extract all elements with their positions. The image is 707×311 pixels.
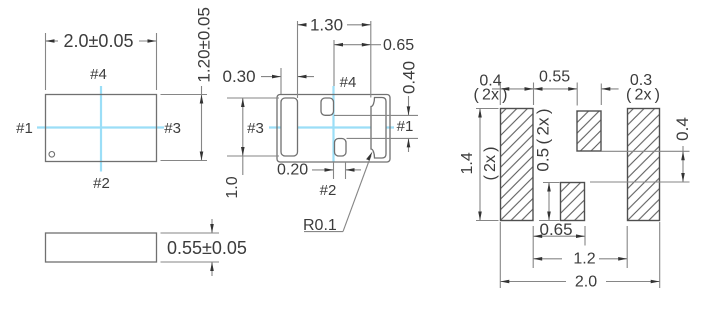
svg-text:0.65: 0.65 (540, 220, 573, 239)
land dim 0.4(2x) extension left (499, 83, 501, 106)
land dim 1.2 line + arrows (533, 258, 562, 260)
svg-text:1.0: 1.0 (224, 176, 241, 198)
land dim 0.3(2x) extension right (600, 84, 602, 106)
pin 1 index circle (49, 152, 55, 158)
dim 0.65 arrows (334, 43, 343, 47)
svg-text:0.55: 0.55 (539, 69, 570, 86)
pad #1 (bottom view right, castellated) (371, 98, 386, 159)
svg-text:0.30: 0.30 (223, 67, 256, 86)
dim 1.20±0.05 line (201, 86, 203, 161)
svg-text:2.0±0.05: 2.0±0.05 (64, 31, 134, 51)
dim 2.0±0.05 extension line right (156, 33, 158, 90)
dim 1.30 line segments (298, 24, 307, 26)
dim 1.30 extension left (297, 21, 299, 98)
svg-text:1.4: 1.4 (459, 152, 476, 174)
svg-text:0.40: 0.40 (400, 61, 419, 94)
top view centerline vertical (cyan) (100, 86, 102, 172)
dim 0.30 arrow left (outside) (261, 76, 281, 78)
svg-text:0.20: 0.20 (277, 162, 308, 179)
dim 2.0±0.05 arrow right (148, 39, 157, 43)
dim 0.55±0.05 arrow top (211, 219, 213, 233)
svg-text:1.2: 1.2 (573, 251, 595, 268)
dim 2.0±0.05 line left segment (46, 40, 59, 42)
land dim 0.4 right line + arrows (682, 146, 684, 182)
svg-text:( 2x ): ( 2x ) (626, 87, 660, 104)
svg-text:0.55±0.05: 0.55±0.05 (167, 238, 247, 258)
dim 2.0±0.05 line right segment (139, 40, 157, 42)
land dim 2.0 extension left (499, 222, 501, 288)
dim 1.20±0.05 arrow down (200, 152, 204, 161)
leader R0.1 (343, 156, 371, 232)
svg-text:#1: #1 (16, 120, 33, 137)
svg-text:R0.1: R0.1 (303, 217, 337, 234)
land dim 0.5(2x) line + arrows (548, 183, 550, 221)
svg-text:( 2x ): ( 2x ) (482, 147, 499, 181)
land dim 0.3(2x) arrow + tail (601, 88, 618, 90)
dim 0.20 extension left (333, 162, 335, 179)
svg-text:1.30: 1.30 (310, 16, 343, 35)
dim 0.20 arrow left (outside) (312, 169, 334, 171)
land dim 0.4(2x) line + arrows (492, 88, 534, 90)
dim 0.55±0.05 extension line top (161, 232, 220, 234)
dim 1.0 arrows (241, 98, 245, 107)
svg-text:#3: #3 (164, 120, 181, 137)
svg-text:#4: #4 (90, 66, 107, 83)
dim 1.20±0.05 extension line bottom (161, 160, 208, 162)
dim 0.55±0.05 arrow bottom (211, 262, 213, 276)
dim 2.0±0.05 extension line left (45, 33, 47, 90)
svg-text:2.0: 2.0 (575, 274, 597, 291)
land dim 1.4(2x) line + arrows (479, 109, 481, 221)
land pad top middle (hatched) (577, 111, 601, 151)
dim 1.20±0.05 arrow up (200, 95, 204, 104)
top view centerline horizontal (cyan) (37, 126, 164, 128)
land dim 0.4(2x)/0.55 extension shared (533, 83, 535, 106)
dim 0.40 extension top (pad4 bottom edge) (334, 114, 418, 116)
leader R0.1 underline (304, 231, 343, 233)
land pad right (hatched) (628, 109, 660, 221)
dim 0.20 extension right (345, 162, 347, 179)
dim 0.30 arrow right (outside) (298, 76, 315, 78)
dim 2.0±0.05 arrow left (46, 39, 55, 43)
land dim 0.55 line + arrows (534, 88, 578, 90)
dim 0.20 arrow right (outside) (346, 169, 362, 171)
dim 0.65 extension left (pad4 edge) (333, 40, 335, 86)
land dim 1.4(2x) extension ticks (476, 108, 499, 110)
svg-text:#3: #3 (247, 120, 264, 137)
land dim 0.65/1.2 extension shared left (532, 226, 534, 268)
svg-text:1.20±0.05: 1.20±0.05 (195, 7, 214, 83)
land dim 0.65 extension right (584, 226, 586, 246)
bottom view package outline (277, 95, 390, 163)
svg-text:0.4: 0.4 (673, 117, 692, 141)
bottom view centerline vertical (cyan) (332, 86, 334, 162)
dim 0.55±0.05 extension line bottom (161, 261, 220, 263)
svg-text:#2: #2 (93, 175, 110, 192)
dim 1.30 arrows (298, 23, 307, 27)
bottom view centerline horizontal (cyan) (269, 126, 394, 128)
pad #2 (bottom view bottom middle) (335, 139, 347, 157)
dim 1.20±0.05 extension line top (161, 94, 208, 96)
dim 1.0 extension bottom (227, 155, 279, 157)
land dim 0.5(2x) extension ticks (543, 182, 560, 184)
svg-text:#2: #2 (320, 182, 337, 199)
dim 0.40 arrow top (408, 96, 410, 115)
dim 1.0 extension top (227, 97, 279, 99)
pad #4 (bottom view top middle) (321, 98, 334, 115)
land dim 2.0 extension right (659, 222, 661, 288)
land dim 1.2 extension right (626, 226, 628, 268)
side view outline (46, 233, 157, 262)
svg-text:( 2x ): ( 2x ) (474, 87, 508, 104)
land dim 0.4 right extension bottom (590, 181, 690, 183)
svg-text:#1: #1 (397, 118, 414, 135)
dim 1.30 / 0.65 extension right (370, 21, 372, 98)
top view package outline (46, 95, 157, 162)
land pad bottom middle (hatched) (561, 183, 585, 221)
svg-text:0.65: 0.65 (383, 37, 414, 54)
svg-text:#4: #4 (340, 74, 357, 91)
dim 0.40 extension bottom (pad2 top edge) (347, 137, 419, 139)
land dim 0.4 right extension top (601, 150, 690, 152)
dim 0.30 extension left (280, 68, 282, 94)
dim 0.65 line (334, 44, 371, 46)
land dim 0.65 line + arrows (533, 235, 585, 237)
dim 1.0 line (242, 98, 244, 175)
land dim 0.55/0.3 extension shared (576, 83, 578, 106)
land pad left (hatched) (501, 109, 534, 221)
land dim 2.0 line + arrows (500, 281, 566, 283)
svg-text:0.5 ( 2x ): 0.5 ( 2x ) (534, 108, 553, 171)
pad #3 (bottom view left) (281, 98, 298, 156)
dim 0.40 arrow bottom (408, 138, 410, 152)
